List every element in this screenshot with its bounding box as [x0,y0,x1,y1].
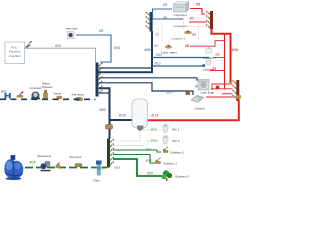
svg-text:Anti-retour: Anti-retour [69,155,82,159]
check valve green line [69,155,82,167]
icon plant exterior 3 [162,170,190,181]
wire red pipe fridge to red manifold [190,9,205,15]
wire red cuisine hot [206,96,235,98]
wire pale green WC2 [113,141,160,146]
small brass fitting [54,92,63,100]
svg-text:Ø5: Ø5 [185,44,189,48]
wire green supply from tank [25,167,107,169]
svg-text:Ø16: Ø16 [115,166,121,170]
svg-text:Ø5: Ø5 [99,29,103,33]
fridge icon [174,2,189,17]
wire grey pipe PVC to cold manifold [25,48,96,62]
svg-text:Ø5: Ø5 [216,53,220,57]
svg-text:Longueur 1: Longueur 1 [174,24,188,28]
wire navy line1 [99,67,152,69]
brass elbow after pump [56,163,61,169]
svg-text:Ø16: Ø16 [232,48,238,52]
svg-text:Pression: Pression [42,85,53,89]
wire green ext2 [113,155,156,164]
svg-text:Anti-retour: Anti-retour [72,93,85,97]
wire red pipe second [189,21,207,23]
wire navy branch douche [152,65,203,67]
svg-text:Surpresseur: Surpresseur [37,154,51,158]
svg-text:Lave linge: Lave linge [201,91,215,95]
icon lave linge [198,80,215,95]
svg-text:WC 2: WC 2 [172,139,180,143]
icon exterior tap 1 [163,147,184,155]
svg-text:Ø10: Ø10 [151,139,157,143]
svg-text:Compteur: Compteur [30,86,42,90]
svg-text:Lave mains: Lave mains [162,51,178,55]
rainwater tank [4,155,23,180]
svg-text:Cuisine: Cuisine [195,107,205,111]
icon fan brass 1 [184,30,192,34]
valve icon at PVC box [25,41,32,48]
svg-text:Ø5: Ø5 [163,16,167,20]
svg-text:Ø16: Ø16 [146,159,152,163]
check valve anti-retour [72,93,85,101]
filter cartridge [94,161,102,183]
svg-text:Ø5: Ø5 [212,67,216,71]
node sens frigo box [66,27,79,39]
svg-text:WC 1: WC 1 [172,128,180,132]
svg-text:Ø10: Ø10 [167,91,173,95]
water heater cylinder [132,99,148,131]
svg-text:PVC /: PVC / [11,45,19,49]
manifold green (bottom) [107,139,114,168]
manifold hot (right) [232,80,239,101]
manifold cold (center left) [96,63,103,97]
icon dog on cuisine line [186,91,191,96]
svg-text:Extérieur 2: Extérieur 2 [164,162,178,166]
svg-text:sens frigo: sens frigo [66,27,79,31]
icon WC2 [163,136,180,145]
wire red vertical distribution [224,34,226,89]
svg-text:chauffant: chauffant [9,54,21,58]
wire red line 2 [211,88,233,90]
icon fan brass lave-mains [162,45,178,55]
svg-text:Ø5: Ø5 [155,33,159,37]
wire navy stub [99,92,110,94]
red circulation pump circle [216,86,220,90]
blue elbow douche [203,64,206,67]
svg-text:Ø8: Ø8 [154,44,158,48]
svg-text:Plancher: Plancher [9,50,21,54]
grey dashes under lave mains [168,41,170,45]
wire pale dashed return 1 [180,17,206,19]
svg-text:Ø5: Ø5 [190,17,194,21]
manifold red (top right) [206,11,213,29]
wire navy line lave-linge [99,78,197,81]
wire thick red main lower [147,100,239,120]
manifold frigo (top) [146,12,153,32]
wire red stub douche [210,70,225,72]
wire blue pipe sens frigo [76,35,111,62]
svg-text:Lavabo 1: Lavabo 1 [204,56,217,60]
brass tap with red handle [17,91,24,97]
wire red stub lavabo [213,57,225,59]
dashed circuit longueur 1 [153,19,188,44]
wire pale dashed return 2 [172,26,206,28]
svg-text:Ø20: Ø20 [100,108,106,112]
svg-text:Ø25: Ø25 [1,90,7,94]
svg-text:Ø 20: Ø 20 [119,114,126,118]
svg-text:Ø10: Ø10 [151,128,157,132]
icon lavabo [204,47,217,60]
icon cuisine sink [191,95,205,111]
brass fitting right of red main [228,95,241,99]
wire navy down to green manifold [109,93,111,139]
valve brass on riser [106,123,113,129]
wire blue pipe to fridge [153,9,173,19]
svg-text:Ø16: Ø16 [114,46,120,50]
wire green ext1 [113,150,161,152]
wire navy branch lavabo [152,57,209,59]
wire navy dashed supply line [0,98,96,100]
wire thick red main upper [212,29,231,83]
svg-text:Ø20: Ø20 [146,148,152,152]
wire blue pipe manifold second [153,18,184,20]
wire green ext3 thick [113,159,163,176]
water meter [30,86,42,100]
icon douche [204,61,217,72]
svg-text:Ø25: Ø25 [30,161,36,165]
svg-text:Ø26: Ø26 [145,48,151,52]
pump surpresseur [37,154,51,171]
wire thick navy riser to frigo manifold [98,31,152,72]
svg-text:Vanne: Vanne [54,92,62,96]
svg-text:Ø 16: Ø 16 [152,114,159,118]
wire navy line cuisine [99,83,193,95]
svg-text:Ø25: Ø25 [97,167,103,171]
svg-text:Ø5: Ø5 [163,3,167,7]
wire red lave linge hot [212,84,233,90]
svg-text:Ø5: Ø5 [192,33,196,37]
svg-text:Extérieur 3: Extérieur 3 [176,175,190,179]
svg-text:Ø12: Ø12 [156,53,162,57]
icon WC1 [163,124,180,133]
svg-text:Ø5: Ø5 [196,3,200,7]
wire pale red dashed vertical longueur [198,22,200,40]
wire red lave mains [190,41,225,47]
wire pale green WC1 [113,130,160,141]
wire red stub short [222,93,233,95]
svg-text:Filtre: Filtre [94,179,100,183]
pressure reducer [42,82,53,100]
wire navy line heater [99,88,133,120]
svg-text:Extérieur 1: Extérieur 1 [171,151,185,155]
supply chain entry flange [1,90,11,99]
node PVC plancher chauffant box [5,42,25,64]
svg-text:réfrigérateur: réfrigérateur [174,14,188,17]
icon exterior tap 2 [156,158,178,166]
svg-text:Ø25: Ø25 [147,172,153,176]
svg-text:Longueur 2: Longueur 2 [172,36,186,40]
svg-text:Ø10: Ø10 [155,62,161,66]
svg-text:Ø16: Ø16 [55,44,61,48]
